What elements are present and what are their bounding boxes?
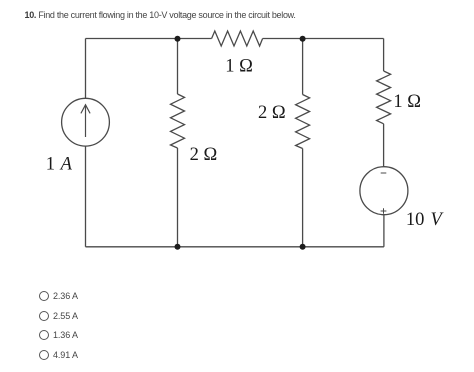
svg-text:2 Ω: 2 Ω: [190, 145, 218, 165]
svg-text:2 Ω: 2 Ω: [258, 103, 286, 123]
svg-text:1 Ω: 1 Ω: [393, 92, 421, 112]
svg-text:10 V: 10 V: [406, 210, 445, 230]
svg-text:1 A: 1 A: [46, 154, 73, 174]
svg-text:1 Ω: 1 Ω: [225, 57, 253, 77]
